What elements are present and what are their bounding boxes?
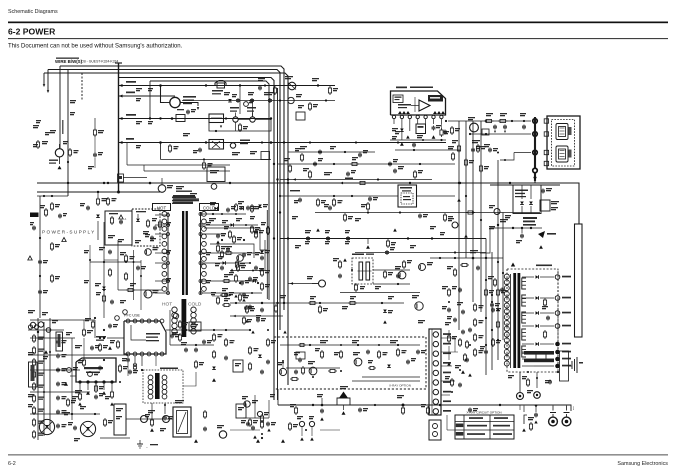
thermistor TH1 (233, 117, 238, 122)
relay box 2 (209, 140, 224, 150)
speck cluster A (232, 152, 240, 153)
cap y100 (288, 97, 294, 103)
wire circle right (180, 103, 198, 107)
resistor feed 1a (484, 120, 486, 122)
sub loop y131 (209, 119, 271, 132)
output filter parts (544, 298, 546, 300)
bottomleft of bus cluster (244, 401, 250, 407)
T801 left rail (167, 212, 169, 294)
wire y316 (230, 315, 283, 317)
wire bus inner vertical (277, 88, 279, 400)
lower gnd tri (539, 245, 543, 248)
sec area more 4 (222, 304, 224, 306)
rectifier diode (536, 324, 539, 328)
bottom part d2 (204, 427, 206, 429)
T801 lower winding R (191, 307, 196, 312)
left col extra parts (67, 398, 69, 400)
fuse F801 (55, 149, 63, 157)
wire y171 (144, 170, 230, 172)
rectifier diode (536, 296, 539, 300)
wire bus loop 3 (44, 73, 288, 385)
left resistor (33, 346, 35, 348)
left tri b (64, 382, 68, 386)
output bottom extra (527, 378, 529, 380)
wire bus loop 1 (60, 66, 284, 310)
pfc under parts (134, 362, 136, 364)
T802 right winding brackets (522, 278, 526, 289)
left resistor (33, 382, 35, 384)
cap text block (523, 217, 537, 219)
tap wire y253 (202, 252, 262, 254)
filter pin squares (544, 119, 548, 123)
T801 right rail (200, 212, 202, 294)
pads dots extra (534, 95, 536, 97)
sec cluster specks row (209, 218, 216, 219)
left cap (57, 368, 59, 370)
fbt gnd tri 3 (281, 439, 285, 443)
riser v6 (491, 252, 493, 370)
PFC inner wire (131, 325, 146, 340)
ic802 right parts (119, 364, 121, 366)
sec part y234 (217, 234, 219, 236)
IC802 pin gnd 2 (102, 391, 106, 395)
xray specks (320, 340, 328, 341)
left arrow dense (148, 88, 153, 89)
sec gnd tris (216, 240, 219, 243)
xray wire h y345 (280, 344, 420, 346)
left cap (57, 354, 59, 356)
drive verticals (133, 250, 135, 300)
wire drop left 5 (81, 73, 83, 100)
mid v line x118b (117, 240, 119, 290)
riser parts b (459, 288, 461, 290)
sec col x256 (255, 230, 257, 232)
capacitor row238 (347, 236, 349, 238)
snubber dashed box (132, 209, 160, 246)
sec right column x449 (448, 288, 450, 290)
riser parts e (497, 288, 499, 290)
jack glyph 2 (556, 146, 568, 162)
small circle pfc left 2 (123, 310, 128, 315)
eyelet stem 1 (552, 406, 554, 411)
sec part y293 (225, 293, 227, 295)
bottom TRIAC (337, 398, 350, 405)
connector pins (433, 332, 438, 337)
eyelet stem 2 (566, 406, 568, 411)
transformer area specks (166, 222, 171, 223)
sec cluster top (215, 207, 218, 211)
wire into IC (70, 375, 76, 377)
junction y118 (171, 117, 174, 120)
top rows extra (264, 84, 266, 86)
HOT label box (153, 204, 171, 211)
left speck rows (75, 345, 82, 346)
xray bottom line (352, 380, 420, 382)
xray wire h y368 (286, 367, 340, 369)
y303 speck mid (342, 306, 348, 307)
left cap group y415 (523, 406, 525, 412)
bridge labels (515, 190, 528, 192)
standby core (155, 373, 160, 399)
y303 hang 2 (261, 308, 263, 310)
cap y183 a (67, 182, 69, 184)
wire y196 (280, 195, 398, 197)
wire bus loop 2 (48, 70, 280, 331)
parts y164 (289, 164, 291, 166)
warning triangle 3 (119, 215, 123, 219)
IC801 dark block (428, 95, 443, 102)
hook near standby (183, 372, 196, 386)
riser v7 (497, 160, 499, 360)
y303 hang 1 (246, 305, 248, 307)
riser v5 (485, 239, 487, 376)
wire y179 seg (280, 179, 432, 181)
junction pad bottom (532, 167, 538, 173)
warning tri top (511, 263, 515, 267)
sec area more 1 (235, 203, 237, 205)
IC802 label (84, 367, 103, 369)
drive wire y262 (90, 261, 141, 263)
svg-text:A: A (125, 217, 127, 221)
IC801 winding blob 1 (398, 111, 410, 114)
left wire h y414 (30, 413, 100, 415)
wire bus loop 5 (150, 81, 269, 300)
left mid parts (45, 208, 47, 210)
y303 hang 4 (383, 310, 387, 313)
wire main h y192 (37, 191, 160, 193)
bottom wire v x278 (277, 389, 279, 405)
filter area extra dots (485, 120, 487, 122)
parts y179 (324, 172, 332, 173)
bridge diode 2 (530, 185, 532, 199)
opto1 (189, 322, 201, 331)
left of bridge specks (500, 219, 508, 220)
T802 left rail (510, 274, 512, 368)
PFC pins bottom (126, 352, 130, 356)
wire bus loop 4 (118, 78, 274, 401)
junctions near PFC (103, 337, 105, 339)
wire main h y183 (37, 182, 560, 184)
resistor RL2 (107, 197, 109, 199)
bridge right cap (542, 189, 544, 191)
left col circles (30, 322, 35, 327)
left wire h y392 (30, 391, 90, 393)
standby winding L (148, 375, 153, 380)
rectifier diode (536, 311, 539, 315)
footer rule (8, 454, 668, 457)
left resistor (33, 406, 35, 408)
cluster specks (242, 396, 248, 397)
y292 wire (340, 292, 420, 294)
T802 left winding (504, 274, 509, 279)
parts y179 more (309, 170, 311, 172)
filter inner dashed (552, 120, 575, 167)
left col wire v3 (49, 318, 51, 430)
bus junction dots 2 (270, 117, 272, 119)
dots y258 (439, 257, 441, 259)
wire y165 (127, 164, 230, 166)
line cap tick (115, 62, 122, 64)
degauss relay circle 1 (141, 416, 148, 423)
parts y152 more (301, 153, 303, 155)
parts near fuse (69, 148, 71, 150)
bottom part a (321, 398, 323, 405)
wire cn risers (448, 330, 450, 338)
heatsink tall box (575, 224, 583, 337)
transistor Q mid (419, 264, 426, 271)
fuse F802 (215, 81, 226, 86)
parts under IC801 more (392, 128, 398, 129)
small circle pfc left 1 (115, 316, 120, 321)
gnd sym 1 (139, 440, 141, 444)
rectifier diode (536, 275, 539, 279)
svg-text:~: ~ (146, 445, 148, 449)
output left parts (494, 278, 496, 280)
under ic802 chain (111, 390, 113, 392)
speaker sym (571, 361, 573, 369)
sec area more 2 (229, 230, 231, 232)
sec lower parts (492, 338, 494, 340)
bottom part d3 (252, 426, 254, 428)
circle right of relay2 (230, 143, 235, 148)
left resistor (33, 418, 35, 420)
sec right dense (492, 308, 494, 310)
y131 extra parts (239, 123, 241, 125)
sec res right (474, 303, 476, 305)
circle part mid (319, 280, 326, 287)
fuse label 2 (212, 90, 223, 92)
svg-text:POWER-SUPPLY: POWER-SUPPLY (42, 230, 96, 235)
tap wire y234 (202, 233, 226, 235)
mid junctions (213, 329, 215, 331)
drive specks (120, 252, 126, 253)
wire left h y196 (37, 195, 68, 197)
box near y114 (296, 112, 305, 120)
xray extra (321, 350, 323, 352)
snubber diode (136, 219, 140, 222)
gnd y247 (367, 239, 369, 245)
pin group box (560, 351, 569, 381)
output pin circles (555, 275, 560, 280)
sec caps right (462, 310, 464, 312)
xray res 2 (328, 370, 330, 372)
staple v 235 (235, 122, 237, 131)
resistor feed 1b (498, 120, 500, 122)
net arrow 3 (119, 117, 123, 120)
topleft speck b (45, 132, 50, 133)
x236 col (235, 274, 237, 276)
left v x72 (71, 338, 73, 420)
left cap (57, 424, 59, 426)
y100 extra (309, 102, 311, 104)
net wire y142 (119, 142, 446, 144)
output dashed pin line (557, 271, 559, 370)
drive dots (133, 261, 135, 263)
standby winding R (162, 375, 167, 380)
riser parts g (454, 318, 456, 320)
PFC inner text (146, 333, 160, 335)
rectifier diode (536, 342, 539, 346)
bottom wire h y438 (100, 437, 130, 439)
under-IC801 gnd (406, 135, 410, 138)
resistor under IC (79, 392, 81, 394)
wire mid h y238 (280, 238, 486, 240)
bottom-left dense 2 (99, 343, 101, 345)
line trans box (398, 185, 417, 207)
main hot line vertical (118, 63, 120, 192)
bridge right box (540, 200, 550, 211)
wire v x98 (97, 192, 99, 197)
mid wire y270 (373, 269, 410, 271)
wire L drop (161, 86, 165, 103)
transformer core bar B (186, 211, 188, 295)
left col wire v1 (37, 318, 39, 440)
IC801 opamp (419, 100, 430, 111)
wire drop left 4 (67, 70, 69, 196)
net wire y85 (119, 85, 335, 87)
diode DL1 (96, 215, 100, 218)
IC802 pins (78, 380, 81, 383)
posistor circle (219, 431, 226, 438)
table row labels (456, 424, 464, 428)
output plain taps (534, 351, 554, 353)
fbt gnd tri 1 (194, 439, 198, 443)
posistor double box (173, 407, 191, 437)
xray inner more (302, 366, 304, 368)
IC801 under-wires (390, 139, 446, 141)
wire L down left (480, 228, 500, 253)
midlower dense (179, 333, 181, 335)
degauss posistor (170, 97, 180, 107)
cap feed pair 2 (504, 125, 506, 127)
tap wire y281 (202, 280, 258, 282)
standby label (160, 368, 178, 370)
sec part y263 (223, 261, 226, 265)
speck rows y186 (176, 186, 184, 187)
bottom-left dense 3 (74, 426, 76, 428)
left cap (57, 382, 59, 384)
cluster wires (254, 395, 256, 418)
mid lower box (233, 360, 243, 372)
posistor labels (183, 96, 196, 98)
fbt gnd tri 2 (256, 439, 260, 443)
bottom-left dense 1 (83, 328, 85, 330)
wire y178 (123, 177, 147, 179)
tap wire y225 (202, 224, 258, 226)
error amp (237, 255, 244, 262)
pfc left parts (92, 320, 94, 322)
y303 transistor big (415, 302, 423, 310)
pfc area verticals (127, 356, 129, 376)
connector CN801 box (429, 329, 441, 415)
pfc right parts (171, 334, 173, 336)
wire mid h y303 (230, 302, 404, 304)
upper mid extra (159, 220, 161, 222)
left cap (57, 340, 59, 342)
fuse label (49, 160, 58, 161)
left col small box (56, 332, 63, 351)
cap under IC (95, 395, 97, 397)
riser parts i (455, 365, 461, 366)
box mid y170 (207, 167, 225, 182)
xray transistor 3 (354, 358, 362, 366)
left parts under y196 (51, 202, 53, 204)
parts under y142 (169, 144, 171, 146)
mid circle (173, 313, 178, 318)
FB label (96, 336, 106, 338)
winding dark bar 2 (524, 359, 554, 363)
riser v2 (465, 121, 467, 258)
sec top parts (460, 264, 462, 266)
wire cn to bottom (446, 415, 448, 430)
filter cluster specks (472, 140, 480, 141)
right rail taps (199, 213, 202, 216)
T801 part number block (173, 195, 195, 197)
under parts (413, 143, 415, 145)
sec under dashed extra (508, 375, 514, 376)
PFC box (124, 321, 166, 354)
mid wire y284 (373, 283, 410, 285)
svg-text:Samsung Electronics: Samsung Electronics (617, 461, 668, 467)
net arrow 1 (119, 84, 123, 87)
left h y330b (28, 329, 64, 331)
wire y152 seg (288, 151, 375, 153)
gnd tris scattered (316, 228, 320, 231)
capacitor row238 (307, 236, 309, 238)
y-290 row parts (103, 294, 105, 296)
wire to tall box (535, 181, 579, 224)
left col wire v2 (43, 322, 45, 436)
mid lower chain 3 (249, 346, 251, 348)
bottom band more (249, 418, 251, 420)
mid lower res chain 2 (225, 338, 227, 340)
secondary dense 3 (220, 294, 222, 296)
bottom-left wires (94, 320, 96, 338)
wire PFC down (141, 356, 143, 366)
wire y160 (161, 159, 272, 161)
left mid dots (39, 237, 41, 239)
IC801 winding blob 2 (433, 111, 445, 114)
hv cap right (452, 222, 458, 228)
bottom speck c2 (160, 428, 166, 429)
riser v1 (458, 121, 460, 330)
bridge rectifier 1 (39, 419, 54, 434)
riser parts h (469, 328, 471, 330)
output label top (536, 265, 552, 267)
parts y303 (261, 302, 263, 304)
top mid dots (172, 85, 174, 87)
left h y355 (28, 354, 128, 356)
left resistor (33, 430, 35, 432)
X-RAY option dashed box (274, 337, 426, 389)
cap feed 3 (523, 125, 525, 127)
bridge bottom wire (500, 227, 542, 229)
output gnd 2 (536, 372, 538, 388)
left tri a (44, 350, 48, 354)
in-box parts (111, 216, 113, 218)
standby under parts (151, 418, 153, 420)
left top circles (28, 325, 32, 329)
left upper labels (50, 130, 56, 131)
relay box 1 (209, 114, 224, 123)
left resistor (33, 334, 35, 336)
secondary dense 1 (217, 244, 219, 246)
transformer lower core (182, 299, 187, 337)
table cells (467, 425, 487, 427)
left cap (57, 396, 59, 398)
IC801 hanging parts (401, 124, 403, 140)
bottom wire h y405 (278, 404, 560, 406)
